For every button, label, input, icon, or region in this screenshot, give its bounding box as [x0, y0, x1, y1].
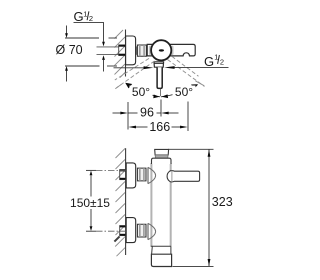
svg-text:50°: 50°	[132, 85, 150, 99]
union centerlines	[96, 170, 126, 231]
svg-text:G: G	[74, 9, 84, 24]
bottom neck	[152, 246, 171, 254]
50° angle arc	[127, 84, 161, 97]
bottom union: boss on body	[148, 223, 156, 239]
stem centerline	[159, 89, 161, 96]
phantom swivel line right	[168, 56, 205, 86]
G1/2 top-left label	[74, 9, 105, 72]
phantom line solid ends	[115, 84, 121, 88]
166 dimension	[136, 102, 189, 132]
arc arrowhead outer-right	[191, 84, 198, 89]
gray shading where tube meets handle cap	[149, 46, 152, 55]
arc arrowhead inner-right	[162, 94, 169, 98]
50° label right	[173, 86, 196, 98]
svg-text:2: 2	[89, 14, 93, 23]
50° label left	[130, 86, 153, 98]
G1/2 right label	[204, 53, 224, 69]
wall hatching (top view)	[115, 30, 126, 78]
bottom union: square in wall	[120, 226, 126, 236]
150±15 dimension	[86, 170, 96, 231]
bottom union: nut	[137, 224, 146, 237]
bottom union: rosette	[126, 218, 136, 243]
svg-text:1: 1	[83, 10, 87, 19]
spout stem	[157, 67, 162, 88]
bottom outlet collar	[151, 254, 171, 266]
svg-text:1: 1	[214, 53, 218, 62]
svg-text:323: 323	[212, 195, 233, 209]
top union: nut	[137, 168, 146, 181]
union nut (hex, side)	[136, 45, 146, 56]
S-union in wall	[119, 45, 126, 56]
spout collar below circle	[154, 62, 164, 67]
G1/2 right leader with arrows at spout	[174, 66, 228, 68]
svg-text:G: G	[204, 54, 214, 69]
svg-text:150±15: 150±15	[70, 196, 110, 210]
top union: rosette	[126, 163, 136, 188]
Ø70 dimension	[65, 26, 117, 82]
svg-text:166: 166	[149, 120, 170, 134]
rosette (escutcheon, side)	[126, 36, 136, 65]
handle cap circle	[151, 40, 171, 60]
mixer body tube (side)	[147, 44, 195, 56]
phantom swivel line left (double)	[115, 58, 155, 87]
step line above neck	[151, 245, 171, 247]
wall line (top view)	[125, 30, 127, 77]
svg-text:2: 2	[220, 57, 224, 66]
96 dimension	[113, 100, 179, 130]
arc arrowhead outer-left	[125, 83, 132, 89]
svg-text:50°: 50°	[175, 85, 193, 99]
cap flange	[152, 158, 172, 164]
top union: square in wall	[120, 170, 126, 180]
supply pipe lines	[97, 46, 120, 48]
lever dash inside circle	[159, 49, 164, 51]
arc arrowhead inner-left	[153, 95, 159, 99]
body tube soft edges (front)	[150, 163, 152, 246]
svg-text:Ø 70: Ø 70	[56, 43, 83, 57]
svg-text:96: 96	[140, 106, 154, 120]
top union: boss on body	[148, 167, 156, 183]
top cap upper tier	[155, 149, 169, 155]
wall hatching (front view)	[114, 149, 125, 257]
knurl band	[155, 155, 168, 158]
lever bar+hub (front)	[167, 171, 200, 182]
323 dimension	[168, 149, 214, 266]
wall line (front view)	[125, 148, 127, 255]
